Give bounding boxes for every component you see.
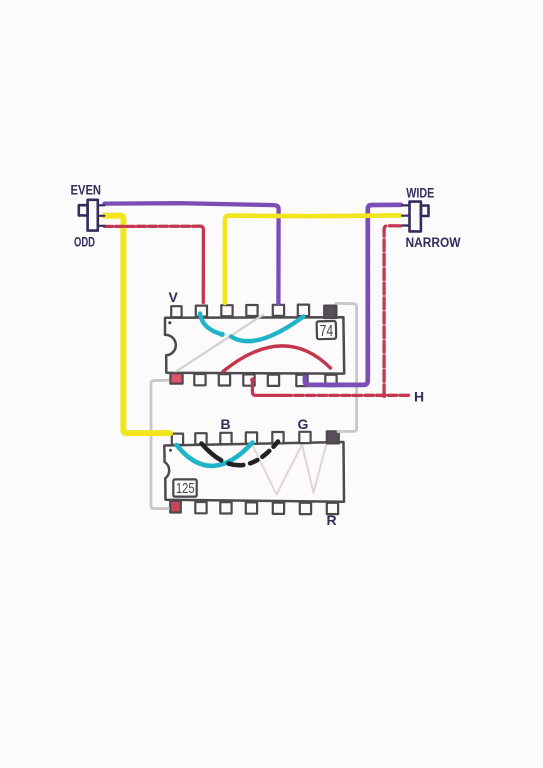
svg-text:G: G (298, 416, 309, 432)
svg-text:74: 74 (320, 323, 334, 340)
svg-text:H: H (414, 389, 424, 405)
svg-text:V: V (169, 289, 179, 305)
svg-text:125: 125 (176, 480, 195, 497)
svg-text:R: R (327, 512, 337, 528)
svg-text:B: B (221, 416, 231, 432)
svg-text:ODD: ODD (74, 235, 95, 250)
svg-text:NARROW: NARROW (406, 235, 461, 250)
svg-text:EVEN: EVEN (71, 182, 102, 197)
svg-text:WIDE: WIDE (406, 185, 434, 200)
